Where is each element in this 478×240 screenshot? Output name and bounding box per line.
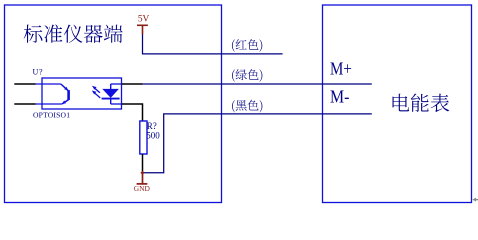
svg-text:M-: M- [330,87,349,107]
left block: standard instrument side box [5,5,222,203]
ground GND [137,173,148,184]
opto pins (black) [14,84,142,121]
wire: black net M- return to ground [143,114,372,173]
svg-text:500: 500 [146,130,160,140]
svg-text:M+: M+ [330,59,352,79]
junction dot [140,171,144,175]
net label (red colour) [232,39,262,52]
opto phototransistor [61,84,69,104]
svg-text:5V: 5V [138,15,150,25]
opto internal leads [36,84,122,104]
opto LED emission arrows [92,86,100,98]
wire: 5V to red net [143,35,283,54]
svg-text:GND: GND [134,184,151,193]
label: energy meter (Chinese) [393,93,450,112]
power port 5V [137,25,148,34]
net label (black colour) [232,100,262,113]
wire: green net to M+ [142,83,372,85]
svg-text:OPTOISO1: OPTOISO1 [33,111,70,120]
right block: energy meter box [323,5,472,203]
net label (green colour) [232,69,262,82]
resistor R? 500 [140,121,147,154]
opto LED [102,84,120,104]
wire: resistor to ground junction [142,154,144,173]
svg-text:U?: U? [33,68,43,77]
optocoupler U? OPTOISO1 body [42,78,122,109]
cursor arrow artifact [472,198,478,202]
label: standard instrument side (Chinese title) [24,24,123,43]
